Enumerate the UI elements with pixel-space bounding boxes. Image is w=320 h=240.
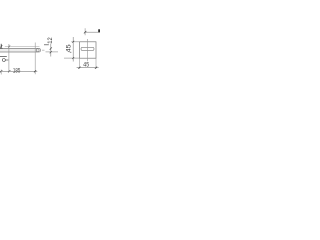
svg-text:185: 185 <box>13 67 21 74</box>
tick right 185 <box>34 70 36 72</box>
bar side view top edge <box>0 47 39 49</box>
plate vertical centerline <box>87 39 89 61</box>
slot <box>81 47 94 50</box>
mid extension vertical <box>8 44 10 72</box>
svg-text:45: 45 <box>66 44 73 52</box>
tick at (1.2,46.4) <box>0 45 2 47</box>
plate top view rect <box>79 42 96 58</box>
left 45 bottom extension <box>64 57 79 59</box>
left 45 dim vertical line <box>72 37 74 62</box>
left 45 tick top <box>72 41 74 43</box>
svg-text:12: 12 <box>47 37 54 44</box>
dash of annotation <box>5 59 8 61</box>
svg-text:45: 45 <box>83 61 89 68</box>
faint line above bar <box>5 45 40 47</box>
left 45 tick bottom <box>72 57 74 59</box>
bottom 45 ext left <box>78 58 80 68</box>
tick at (8.2,46.4) <box>8 45 10 47</box>
12 dim vertical line <box>50 44 52 57</box>
small mark below left 45 <box>70 52 71 53</box>
dark segment under 12 text <box>44 44 49 46</box>
12 dim ext dash <box>42 49 45 51</box>
left 45 top extension <box>71 41 79 43</box>
dark corner stub <box>0 47 3 49</box>
185 dimension line <box>0 70 37 72</box>
left extension lower part <box>0 70 2 75</box>
clipped text top right <box>98 29 100 32</box>
bottom 45 dim line <box>77 67 99 69</box>
hole centerline / extension line <box>34 43 36 75</box>
bottom 45 tick right <box>95 67 97 69</box>
tick left 185 <box>0 70 2 72</box>
12 dim bottom extension <box>46 51 59 53</box>
top-right extension vertical <box>84 28 86 35</box>
bottom 45 tick left <box>78 67 80 69</box>
top-right tick <box>84 31 86 33</box>
left end dark extension <box>0 44 2 48</box>
bar rounded right end <box>39 48 41 52</box>
12 dim tick bottom <box>50 51 52 53</box>
small dim line left below bar <box>0 55 7 57</box>
hole at bar end <box>36 49 39 52</box>
12 dim tick top <box>50 47 52 49</box>
tick at (8,71.3) <box>8 70 10 72</box>
bottom 45 ext right <box>95 58 97 68</box>
circle annotation <box>2 59 5 62</box>
bar side view body <box>0 48 39 52</box>
bar side view bottom edge <box>0 51 39 53</box>
top-right dim line to edge <box>85 31 100 33</box>
